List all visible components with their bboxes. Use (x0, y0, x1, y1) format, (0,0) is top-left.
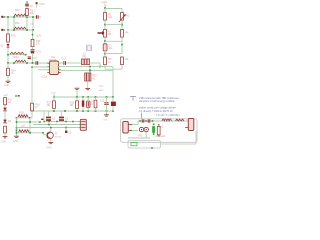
svg-text:L.C trim 7 x 100 Ohm: L.C trim 7 x 100 Ohm (156, 114, 180, 117)
svg-text:R20: R20 (89, 100, 94, 103)
svg-text:GND: GND (4, 85, 9, 87)
svg-text:R15: R15 (36, 40, 41, 43)
svg-text:AGC: AGC (99, 89, 104, 92)
svg-text:+12V: +12V (39, 3, 45, 6)
svg-text:R14: R14 (11, 69, 16, 72)
svg-text:R10: R10 (15, 8, 20, 12)
svg-text:+12V: +12V (101, 0, 107, 4)
svg-text:R18: R18 (70, 101, 75, 104)
svg-text:GND: GND (103, 120, 108, 122)
svg-text:+12V: +12V (36, 35, 42, 38)
svg-text:0.1 directly 7 1000 in 28/76 o: 0.1 directly 7 1000 in 28/76 off (139, 110, 173, 113)
svg-text:LP-board: LP-board (155, 135, 166, 138)
svg-text:GND: GND (13, 141, 18, 143)
svg-text:R19: R19 (20, 112, 25, 115)
svg-text:OUT: OUT (99, 86, 104, 88)
svg-text:R16: R16 (35, 104, 40, 107)
svg-text:IC1A: IC1A (42, 75, 48, 78)
svg-text:varactors C half energy rectif: varactors C half energy rectified (139, 100, 175, 103)
svg-text:IC1: IC1 (51, 56, 56, 59)
svg-text:C12: C12 (33, 58, 38, 60)
svg-text:BC547: BC547 (55, 136, 62, 138)
svg-text:C11: C11 (37, 51, 42, 54)
svg-text:TR1: TR1 (82, 56, 87, 59)
svg-text:+2V5: +2V5 (51, 93, 57, 95)
svg-text:TR3: TR3 (138, 135, 143, 137)
svg-text:C13: C13 (62, 57, 67, 60)
svg-text:R17: R17 (47, 101, 52, 104)
svg-text:GND: GND (1, 142, 6, 144)
svg-text:+12: +12 (4, 94, 9, 97)
svg-text:C15: C15 (100, 99, 105, 102)
svg-text:1u0: 1u0 (21, 124, 26, 127)
svg-text:NE612A: NE612A (49, 58, 57, 61)
svg-text:R11: R11 (15, 21, 20, 25)
svg-text:R13: R13 (11, 35, 16, 38)
svg-text:GND: GND (47, 147, 52, 149)
